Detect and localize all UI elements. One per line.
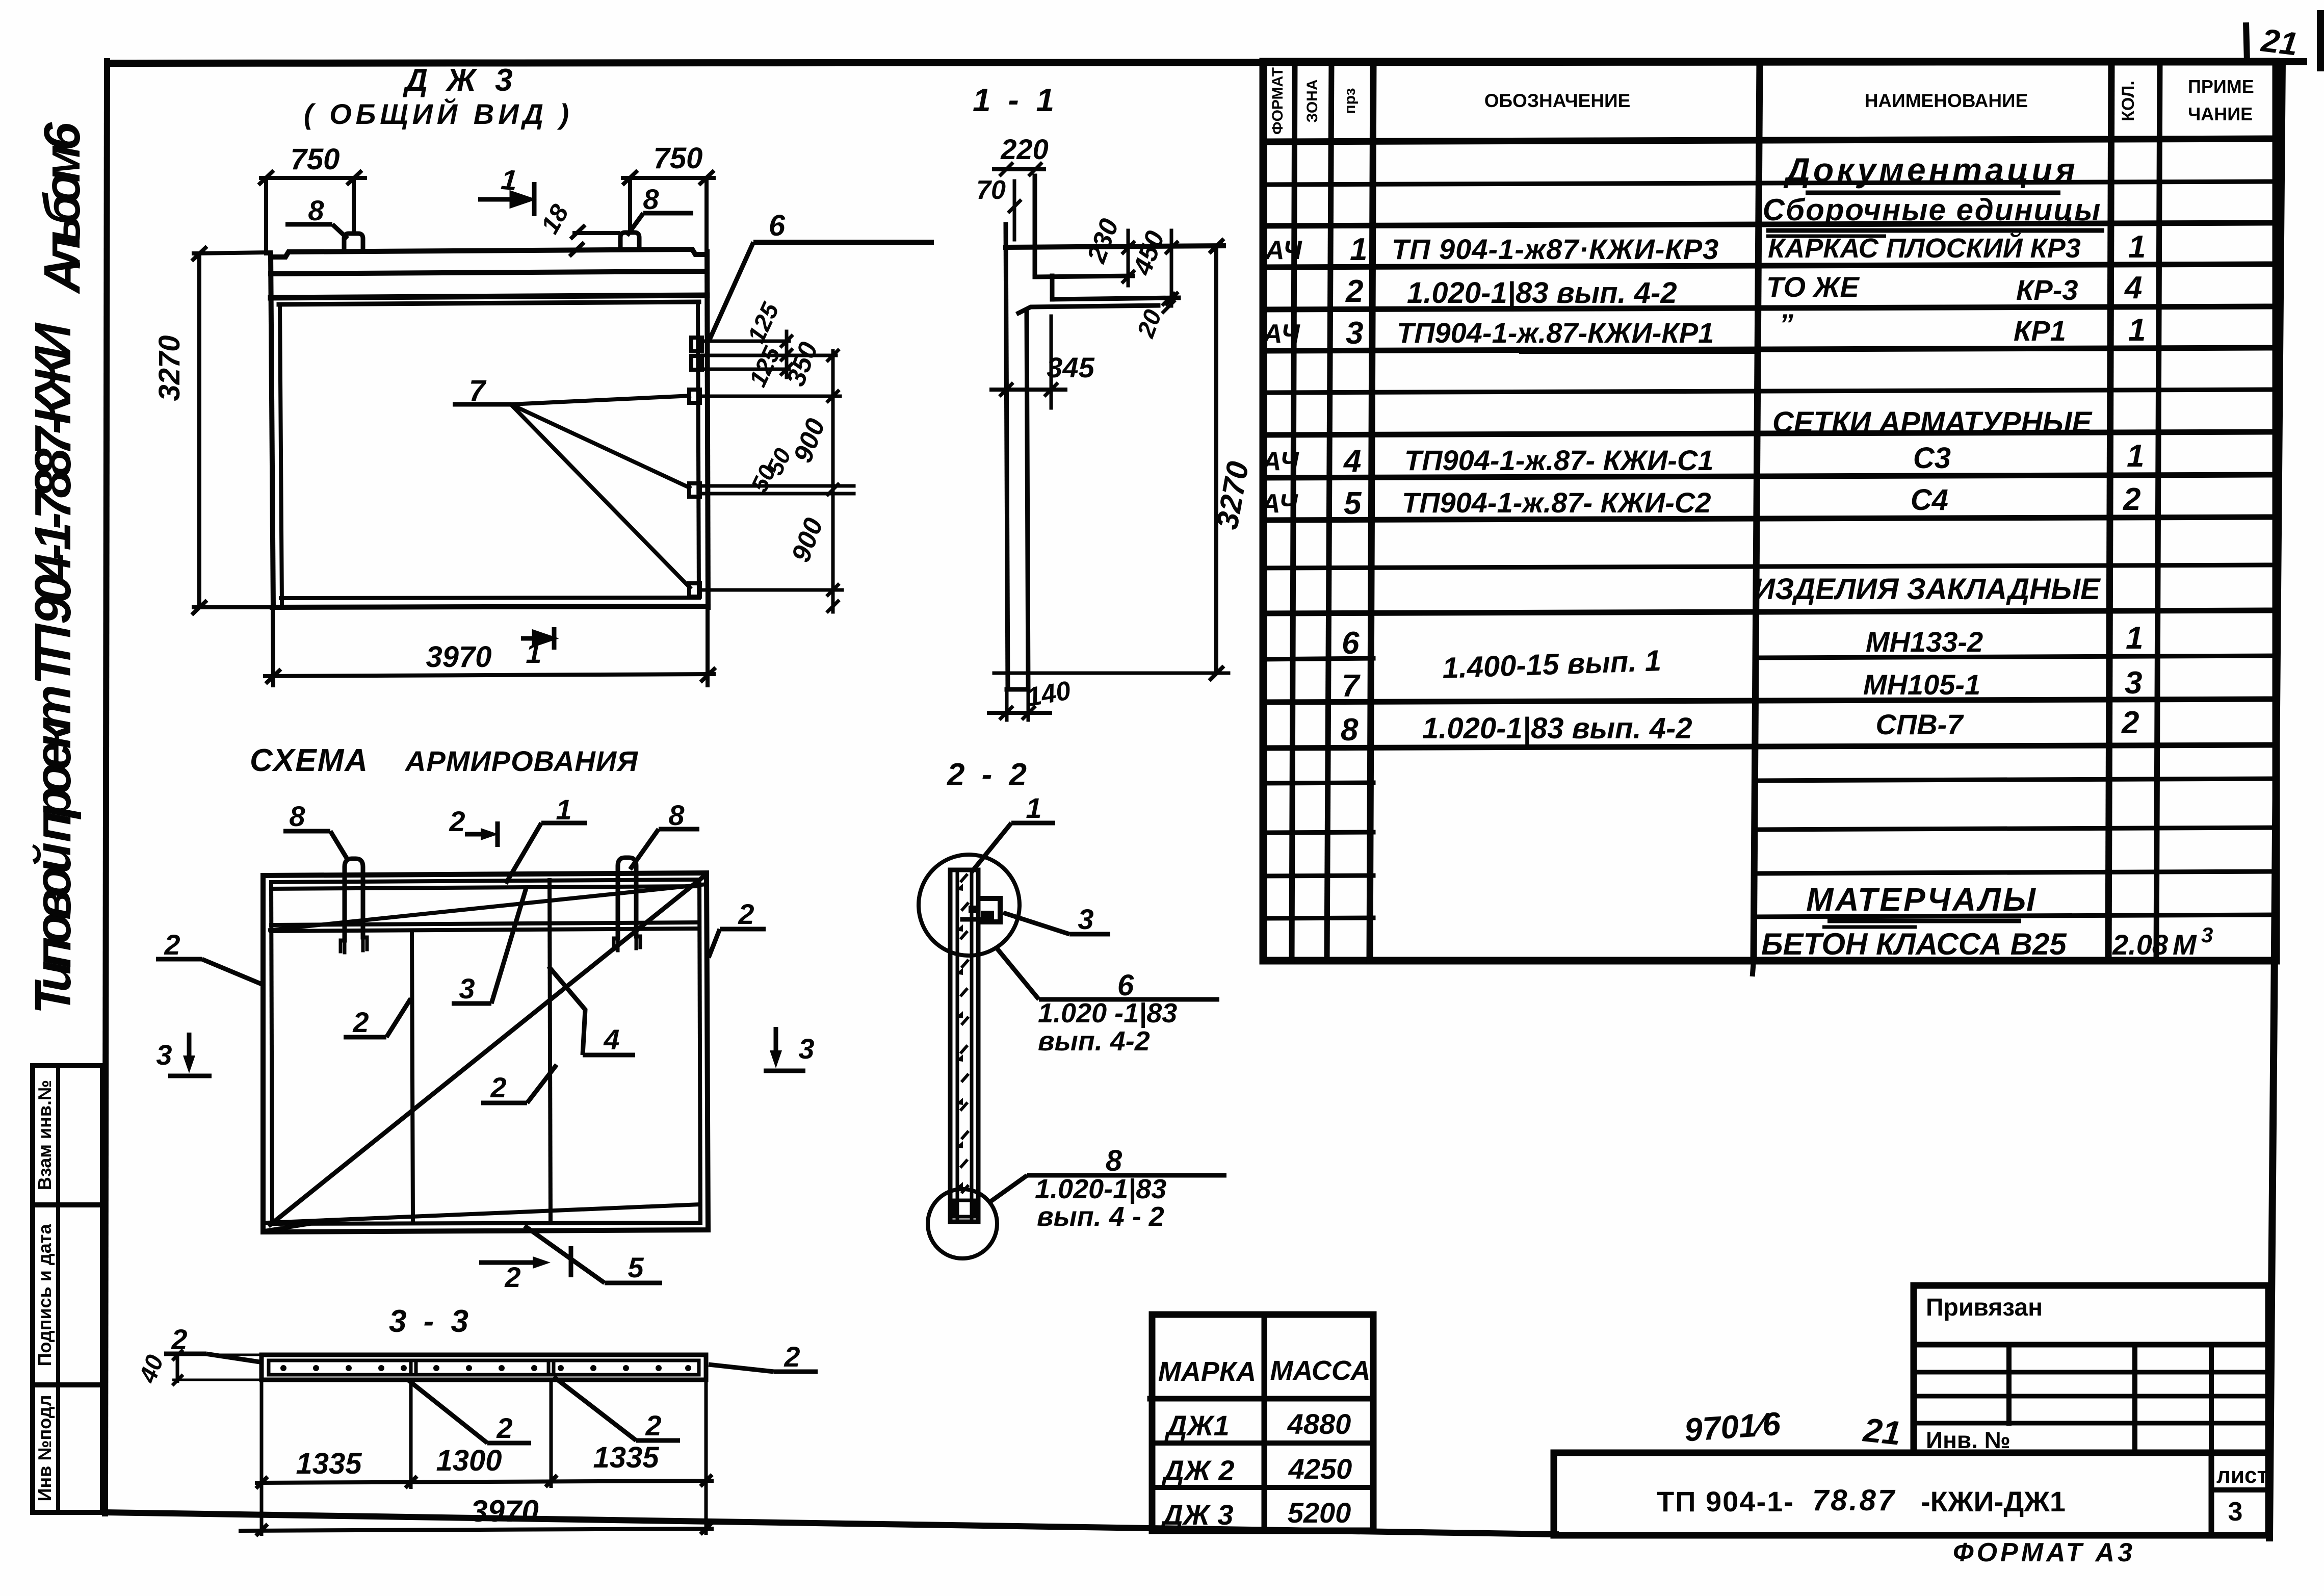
ext line embed6 mid: [702, 354, 836, 357]
svg-text:5200: 5200: [1288, 1497, 1351, 1529]
row line r1: [1263, 182, 2276, 185]
row line r18 right columns: [1754, 915, 2276, 917]
callout 5: [525, 1226, 662, 1283]
slab bottom inner edge: [281, 598, 699, 598]
main view DZh3 (obshchiy vid): [271, 233, 708, 607]
callout 2 right: [709, 898, 766, 958]
column line poz right: [1370, 62, 1373, 961]
svg-text:1: 1: [500, 163, 518, 196]
dim 70 vertical: [1013, 181, 1016, 240]
svg-text:1.020-1|83 вып. 4-2: 1.020-1|83 вып. 4-2: [1422, 712, 1692, 745]
top band line a: [271, 886, 699, 889]
flange bottom line B: [1035, 276, 1133, 277]
svg-text:ФОРМАТ А3: ФОРМАТ А3: [1953, 1538, 2135, 1567]
dim 750 right tick b: [700, 172, 713, 184]
svg-text:1: 1: [2127, 439, 2144, 474]
wall inner vertical: [1027, 311, 1028, 689]
svg-text:КР1: КР1: [2014, 315, 2066, 347]
ext line embed6 bottom: [702, 368, 789, 371]
dim 3970 ext left: [273, 607, 273, 685]
dim 750 left ext a: [264, 178, 268, 253]
svg-text:2: 2: [738, 898, 754, 930]
svg-text:СХЕМА: СХЕМА: [250, 743, 369, 778]
svg-text:ТП904-1-ж.87- КЖИ-С2: ТП904-1-ж.87- КЖИ-С2: [1402, 486, 1711, 519]
row line r16 left columns: [1263, 832, 1373, 833]
slab right outer edge: [707, 252, 708, 607]
svg-text:1335: 1335: [593, 1441, 659, 1474]
dim 345 line: [991, 388, 1065, 392]
svg-text:ТП 904-1-ж87·КЖИ-КР3: ТП 904-1-ж87·КЖИ-КР3: [1392, 233, 1719, 265]
svg-text:МАССА: МАССА: [1270, 1355, 1371, 1386]
diagonal setka top band: [270, 884, 707, 930]
svg-text:2: 2: [784, 1341, 800, 1373]
svg-text:4: 4: [1343, 444, 1361, 479]
svg-text:6: 6: [769, 209, 786, 242]
column line format right: [1292, 62, 1295, 961]
panel inner rect right line: [699, 880, 700, 1223]
svg-text:3: 3: [1346, 316, 1363, 351]
extension verticals: [260, 1380, 264, 1536]
svg-text:2.08: 2.08: [2112, 929, 2169, 961]
row line r2: [1263, 223, 2276, 226]
dim 40 left of 3-3: [172, 1350, 262, 1385]
svg-text:1: 1: [2128, 313, 2146, 348]
svg-text:6: 6: [1117, 969, 1134, 1002]
rebar dots in 3-3: [280, 1365, 691, 1371]
lifting loop right: [620, 233, 639, 249]
svg-text:2: 2: [490, 1071, 506, 1103]
column outer rect: [950, 870, 978, 1222]
svg-text:МАРКА: МАРКА: [1158, 1356, 1256, 1387]
svg-text:2 - 2: 2 - 2: [947, 757, 1031, 792]
lifting loop left: [344, 234, 363, 251]
callout 2 top-left of 3-3: [164, 1323, 263, 1362]
svg-text:Привязан: Привязан: [1926, 1294, 2043, 1321]
svg-text:750: 750: [654, 142, 703, 175]
svg-text:3: 3: [798, 1033, 814, 1065]
frame border right: [2269, 62, 2282, 1538]
svg-text:3: 3: [2201, 923, 2213, 947]
svg-text:3270: 3270: [153, 335, 186, 401]
privyazan box: [1914, 1285, 2268, 1453]
dim 450 ticks: [1166, 242, 1177, 253]
panel inner rect left line: [271, 882, 272, 1224]
callout 8 left: [285, 194, 348, 239]
shelf line C: [1052, 298, 1179, 299]
slab left inner edge: [280, 304, 282, 605]
svg-text:ДЖ 2: ДЖ 2: [1161, 1454, 1234, 1486]
svg-text:ОБОЗНАЧЕНИЕ: ОБОЗНАЧЕНИЕ: [1484, 90, 1631, 111]
row line r13: [1263, 699, 2276, 702]
embed plate 7b: [689, 483, 700, 497]
column line naimenovanie right: [2108, 62, 2111, 961]
right vertical dim line 350-900-900: [831, 351, 835, 612]
callout 2 bottom middle of 3-3: [408, 1380, 531, 1444]
section mark 3 right: [764, 1027, 815, 1071]
slab right inner edge: [698, 302, 699, 598]
privyazan verticals: [2006, 1345, 2012, 1423]
row line r16 right columns: [1755, 828, 2276, 830]
embed plate 7a: [689, 390, 700, 403]
specification table: [1263, 62, 2276, 974]
dim 70 ticks: [1009, 201, 1020, 212]
schema loop left: [345, 859, 363, 940]
svg-text:НАИМЕНОВАНИЕ: НАИМЕНОВАНИЕ: [1865, 90, 2028, 111]
svg-text:АЧ: АЧ: [1261, 447, 1299, 476]
section mark 2 bottom: [479, 1246, 571, 1293]
svg-text:2: 2: [504, 1261, 520, 1293]
panel outer rect: [263, 873, 708, 1232]
partition tick 1: [409, 1360, 413, 1375]
profile top line A: [1006, 246, 1223, 247]
partition line 1: [412, 931, 413, 1223]
callout 2 bottom right of 3-3: [554, 1377, 680, 1441]
svg-text:ЧАНИЕ: ЧАНИЕ: [2188, 104, 2253, 124]
left stamp boxes: [33, 1066, 102, 1512]
embed plate 7c: [689, 583, 700, 597]
svg-text:ДЖ 3: ДЖ 3: [1160, 1499, 1233, 1531]
svg-text:2: 2: [645, 1409, 661, 1441]
section mark 2 top: [449, 805, 499, 847]
detail circle top: [919, 855, 1020, 956]
svg-text:Д Ж 3: Д Ж 3: [402, 63, 517, 98]
dim 750 right ext b: [704, 178, 709, 250]
dim 3270 ext bottom: [194, 605, 271, 609]
svg-text:Альбом 6: Альбом 6: [34, 122, 91, 295]
svg-text:8: 8: [289, 800, 305, 832]
table header texts: [1269, 67, 2254, 135]
slab 3-3 right end cap: [697, 1360, 701, 1375]
svg-text:70: 70: [976, 175, 1006, 205]
dim 345 ticks: [1001, 384, 1012, 395]
svg-text:Подпись и дата: Подпись и дата: [34, 1224, 55, 1367]
callout 3 of 2-2: [1003, 903, 1110, 935]
svg-text:ТП904-1-ж.87-КЖИ-КР1: ТП904-1-ж.87-КЖИ-КР1: [1397, 317, 1714, 349]
dim 3270 tick top: [193, 248, 205, 260]
callout 1 of 2-2: [972, 792, 1055, 872]
svg-text:3970: 3970: [471, 1494, 538, 1528]
bottom cap inner: [954, 1200, 975, 1217]
svg-text:1: 1: [1026, 792, 1041, 824]
slab left outer edge: [271, 254, 273, 607]
svg-text:( ОБЩИЙ ВИД ): ( ОБЩИЙ ВИД ): [304, 98, 573, 130]
frame border bottom: [105, 1512, 1556, 1534]
ext line embed7b double: [699, 484, 854, 488]
callout 8 right: [627, 183, 693, 236]
wall outer left line: [1006, 224, 1008, 689]
slab top strip line 3: [271, 295, 707, 298]
dim 750 left line: [261, 176, 365, 180]
svg-text:СПВ-7: СПВ-7: [1876, 708, 1965, 740]
dim 750 right line: [623, 176, 714, 180]
callout 6: [709, 209, 934, 341]
right side small dimension lines: [699, 331, 854, 612]
svg-text:21: 21: [1861, 1410, 1903, 1452]
svg-text:ТП 904-1-: ТП 904-1-: [1657, 1485, 1794, 1517]
partition line 2: [550, 880, 551, 1223]
slab bottom outer edge: [272, 606, 708, 607]
svg-text:прз: прз: [1342, 88, 1359, 114]
dim 230 ticks: [1123, 242, 1134, 253]
svg-text:МАТЕРЧАЛЫ: МАТЕРЧАЛЫ: [1806, 881, 2038, 918]
svg-text:5: 5: [628, 1251, 644, 1283]
slab top edge with end notches: [271, 249, 707, 257]
dim 220 line: [994, 167, 1044, 171]
schema panel: [263, 858, 708, 1232]
svg-text:Взам инв.№: Взам инв.№: [34, 1080, 55, 1190]
rebar ticks inside column: [960, 874, 969, 1193]
column inner right line: [970, 870, 974, 1222]
dim 345 ext vertical: [1050, 316, 1053, 408]
svg-text:1.020-1|83: 1.020-1|83: [1035, 1174, 1166, 1204]
svg-text:АЧ: АЧ: [1260, 489, 1298, 519]
svg-text:1: 1: [2128, 229, 2146, 265]
svg-text:8: 8: [668, 799, 685, 831]
callout 1 schema: [506, 793, 587, 884]
svg-text:4250: 4250: [1288, 1453, 1352, 1485]
svg-text:4: 4: [2124, 270, 2142, 305]
dim 140 ticks: [1001, 707, 1012, 718]
slab top strip line 2: [271, 271, 707, 274]
embed plate 6 anchor a: [691, 338, 702, 351]
svg-text:2: 2: [352, 1006, 369, 1038]
svg-text:КАРКАС ПЛОСКИЙ КР3: КАРКАС ПЛОСКИЙ КР3: [1768, 232, 2081, 264]
svg-text:Сборочные единицы: Сборочные единицы: [1763, 193, 2102, 227]
dim 3270 ticks: [1211, 240, 1222, 252]
svg-text:2: 2: [449, 805, 465, 837]
callout 8 schema right: [630, 799, 699, 869]
svg-text:Инв №подл: Инв №подл: [34, 1395, 55, 1502]
svg-text:лист: лист: [2216, 1463, 2268, 1488]
svg-text:1.020-1|83 вып. 4-2: 1.020-1|83 вып. 4-2: [1407, 276, 1677, 310]
svg-text:2: 2: [496, 1412, 512, 1444]
row line r12 left part: [1263, 658, 1373, 659]
callout 2 top-right of 3-3: [709, 1341, 818, 1373]
svg-text:КОЛ.: КОЛ.: [2119, 81, 2138, 121]
callout 3 middle: [452, 888, 526, 1005]
dim 125 ticks: [781, 336, 792, 346]
svg-text:ИЗДЕЛИЯ ЗАКЛАДНЫЕ: ИЗДЕЛИЯ ЗАКЛАДНЫЕ: [1754, 573, 2101, 606]
svg-text:1: 1: [1350, 232, 1367, 267]
dim 3970 line bottom: [265, 674, 714, 676]
dim 3970 ext right: [706, 607, 710, 685]
marka massa table: [1150, 1315, 1373, 1531]
svg-text:1 - 1: 1 - 1: [973, 82, 1058, 118]
svg-text:Типовой проект ТП 904-1-7887: Типовой проект ТП 904-1-7887-КЖИ: [24, 322, 82, 1014]
svg-text:ТО ЖЕ: ТО ЖЕ: [1766, 271, 1860, 303]
svg-text:4: 4: [603, 1023, 619, 1056]
dim 3270 line left: [197, 253, 201, 607]
svg-text:вып. 4 - 2: вып. 4 - 2: [1037, 1201, 1164, 1232]
svg-text:3970: 3970: [426, 640, 491, 674]
shelf top right: [979, 898, 1000, 922]
table content handwritten: [1260, 151, 2213, 961]
svg-text:ФОРМАТ: ФОРМАТ: [1269, 67, 1286, 135]
svg-text:220: 220: [1000, 133, 1048, 165]
svg-text:ДЖ1: ДЖ1: [1164, 1409, 1230, 1441]
svg-text:8: 8: [643, 183, 659, 215]
dim 140 ext verticals: [1005, 689, 1009, 720]
detail circle bottom: [928, 1189, 997, 1258]
row line r3: [1263, 264, 2276, 267]
svg-text:4880: 4880: [1287, 1408, 1351, 1440]
callout 2 inner left: [344, 998, 411, 1038]
row line r18 left columns: [1263, 918, 1373, 918]
section 1-1: [989, 164, 1229, 720]
row line r6: [1263, 390, 2276, 393]
callout 6 with document ref: [996, 947, 1219, 1057]
diagonal setka bottom: [267, 1204, 699, 1223]
row line r15 right columns: [1755, 779, 2276, 781]
wall top left vertical ext: [1033, 176, 1037, 277]
svg-text:5: 5: [1344, 486, 1362, 521]
callout 8 schema left: [283, 800, 348, 860]
row line r17 right columns: [1754, 871, 2276, 873]
shelf line D lower: [1019, 305, 1158, 313]
callout 2 far left: [156, 929, 264, 985]
title block: [1554, 1453, 2268, 1535]
svg-text:Документация: Документация: [1783, 151, 2078, 189]
weld dots in column: [956, 884, 963, 1189]
svg-text:АРМИРОВАНИЯ: АРМИРОВАНИЯ: [404, 745, 638, 777]
svg-text:М: М: [2173, 929, 2197, 961]
dim 3270 vertical right: [1214, 246, 1218, 673]
dim 3270 ext top: [194, 252, 271, 253]
section mark 3 left: [156, 1033, 212, 1076]
column line kol right: [2156, 62, 2160, 961]
row line r7: [1263, 432, 2276, 435]
callout 2 center: [481, 1065, 557, 1103]
header bottom line: [1263, 139, 2276, 142]
dim 750 right ext a: [628, 178, 632, 233]
row line r11: [1263, 610, 2276, 613]
svg-text:АЧ: АЧ: [1264, 236, 1302, 265]
svg-text:ПРИМЕ: ПРИМЕ: [2188, 76, 2254, 97]
row line r8: [1263, 475, 2276, 478]
svg-text:1.020 -1|83: 1.020 -1|83: [1038, 998, 1177, 1028]
svg-text:7: 7: [1342, 668, 1361, 704]
row line r10: [1263, 565, 2276, 568]
dim 3270 tick bottom: [193, 602, 205, 613]
svg-text:МН105-1: МН105-1: [1863, 668, 1980, 701]
svg-text:78.87: 78.87: [1812, 1484, 1896, 1517]
svg-text:АЧ: АЧ: [1262, 319, 1300, 349]
svg-text:345: 345: [1047, 351, 1094, 383]
svg-text:-КЖИ-ДЖ1: -КЖИ-ДЖ1: [1921, 1485, 2066, 1517]
callout 7 with fan leaders: [453, 374, 691, 589]
svg-text:9701⁄6: 9701⁄6: [1683, 1405, 1782, 1449]
dim 450 vertical: [1170, 230, 1173, 306]
privyazan row line: [1914, 1342, 2268, 1348]
svg-text:СЕТКИ АРМАТУРНЫЕ: СЕТКИ АРМАТУРНЫЕ: [1772, 406, 2093, 439]
slab top strip line 4 inner: [279, 302, 699, 304]
dim 125 vertical line: [785, 331, 789, 377]
dim 750 left ext b: [352, 178, 356, 234]
row line r17 left columns: [1263, 876, 1373, 876]
embed plate 6 anchor b: [691, 356, 702, 370]
slab 3-3 left end cap: [267, 1360, 271, 1375]
dim 3970 bottom of 3-3: [239, 1523, 714, 1536]
svg-text:1: 1: [2126, 621, 2143, 656]
row line r12 right part: [1757, 656, 2276, 658]
top band bottom double line: [271, 922, 699, 925]
row line r15 left columns: [1263, 783, 1373, 783]
slab 3-3 inner top line: [269, 1359, 699, 1362]
partition tick 2: [547, 1360, 551, 1375]
svg-text:1300: 1300: [436, 1444, 502, 1477]
row line r9: [1263, 517, 2276, 520]
ext line embed6 top: [702, 340, 789, 343]
svg-text:ТП904-1-ж.87- КЖИ-С1: ТП904-1-ж.87- КЖИ-С1: [1404, 444, 1714, 476]
frame border top: [109, 62, 2304, 63]
svg-text:2: 2: [2123, 482, 2140, 517]
section mark 1 bottom: [521, 627, 554, 650]
shelf inner weld marks: [969, 906, 980, 913]
dim 220 ticks: [1001, 164, 1012, 175]
ext line embed7a: [699, 395, 840, 398]
row line r5: [1263, 348, 2276, 351]
bottom ext line: [994, 672, 1229, 675]
page number 21 top right: [2246, 10, 2324, 71]
svg-text:3: 3: [2125, 665, 2142, 701]
callout 4: [549, 966, 635, 1056]
svg-text:Инв. №: Инв. №: [1926, 1427, 2010, 1453]
svg-text:3 - 3: 3 - 3: [389, 1304, 473, 1339]
step vertical: [1050, 276, 1055, 299]
panel inner bottom line: [271, 1223, 700, 1224]
svg-text:3: 3: [2228, 1497, 2243, 1527]
dims 1335 1300 1335: [255, 1380, 714, 1536]
svg-text:2: 2: [171, 1323, 187, 1355]
dim 3970 tick right: [702, 669, 714, 681]
bottom left corner diagonal: [265, 1223, 316, 1231]
slab 3-3 outer rect: [262, 1355, 706, 1380]
dim 140 line bottom: [989, 711, 1050, 715]
ext line embed7c: [699, 588, 842, 592]
slab 3-3 inner bottom line: [269, 1373, 699, 1377]
svg-text:750: 750: [291, 143, 340, 176]
schema loop right: [618, 858, 636, 938]
dim 230 vertical: [1127, 230, 1130, 286]
dim 3970 tick left: [267, 671, 279, 682]
svg-text:1: 1: [526, 637, 541, 669]
dim 18 tick: [572, 226, 584, 238]
dim 750 right tick a: [624, 172, 636, 184]
panel inner top line: [271, 880, 699, 882]
svg-text:8: 8: [1106, 1144, 1122, 1177]
svg-text:вып. 4-2: вып. 4-2: [1038, 1026, 1150, 1057]
dim 750 left tick a: [260, 172, 272, 184]
svg-text:3: 3: [1078, 903, 1093, 935]
diagonal setka main: [270, 875, 706, 1225]
ticks on right vertical dim: [828, 350, 838, 361]
table outer border: [1263, 62, 2276, 961]
row line r14: [1263, 745, 2276, 748]
svg-text:БЕТОН КЛАССА В25: БЕТОН КЛАССА В25: [1761, 927, 2067, 961]
column line oboznachenie right: [1754, 62, 1760, 961]
svg-text:3: 3: [156, 1039, 172, 1071]
frame border left: [105, 61, 107, 1513]
svg-text:21: 21: [2259, 21, 2300, 62]
dim 20 ticks: [1163, 294, 1174, 304]
svg-text:8: 8: [308, 194, 324, 226]
svg-text:3: 3: [459, 972, 475, 1005]
svg-text:2: 2: [164, 929, 180, 961]
dim 750 left tick b: [348, 172, 360, 184]
tick below table at oboznachenie column: [1753, 961, 1754, 974]
dim 18 line at right loop: [575, 231, 618, 235]
svg-text:8: 8: [1341, 712, 1359, 748]
